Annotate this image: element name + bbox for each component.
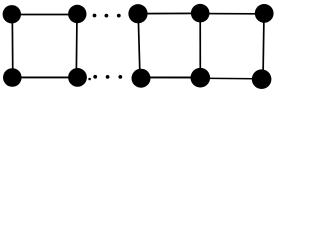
- wire vertical T5-B5: [263, 13, 264, 79]
- node T2: [68, 5, 86, 23]
- node B3: [132, 69, 151, 88]
- node B1: [3, 68, 22, 87]
- ellipsis dot top 2: [105, 14, 109, 18]
- node T3: [128, 4, 147, 23]
- wire top edge T3-T4: [138, 12, 200, 14]
- node B5: [252, 69, 272, 89]
- node T1: [3, 5, 21, 23]
- wire top edge T1-T2: [12, 14, 78, 16]
- ellipsis dot bottom 3: [118, 75, 122, 79]
- node T5: [255, 4, 274, 23]
- ellipsis dot bottom 2: [106, 75, 110, 79]
- wire left edge T1-B1: [11, 14, 14, 77]
- wire top edge T4-T5: [200, 13, 264, 15]
- node B2: [68, 68, 87, 87]
- node T4: [191, 4, 210, 23]
- ellipsis dot top 1: [93, 14, 97, 18]
- ellipsis dot bottom 1: [93, 75, 97, 79]
- wire bottom edge B4-B5: [200, 77, 261, 80]
- wire right edge T2-B2: [75, 14, 78, 77]
- wire bottom edge B1-B2: [12, 76, 77, 78]
- wire vertical T3-B3: [138, 14, 140, 79]
- wire vertical T4-B4: [199, 13, 201, 78]
- wire bottom edge B3-B4: [141, 76, 200, 78]
- node B4: [191, 68, 211, 88]
- ellipsis dot top 3: [117, 14, 121, 18]
- speck near B2: [88, 78, 91, 81]
